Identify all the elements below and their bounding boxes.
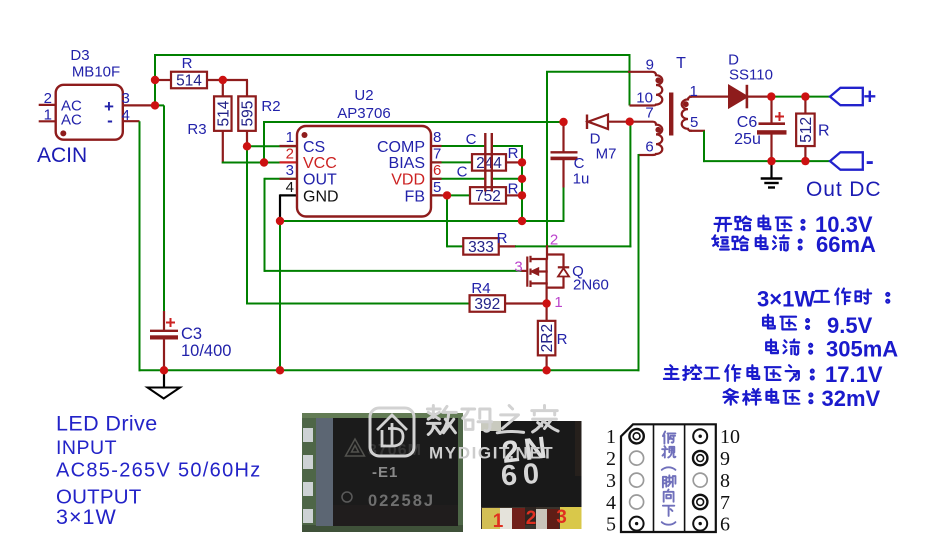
svg-text:333: 333 xyxy=(468,239,494,256)
svg-text:R3: R3 xyxy=(187,121,206,138)
svg-text:66mA: 66mA xyxy=(816,232,876,257)
svg-text:60: 60 xyxy=(500,457,546,492)
svg-text:10/400: 10/400 xyxy=(181,342,231,360)
svg-text:3×1W: 3×1W xyxy=(56,505,117,529)
svg-text:1: 1 xyxy=(44,107,52,124)
svg-text:1: 1 xyxy=(493,511,504,532)
svg-text:1: 1 xyxy=(286,129,294,146)
svg-text:MB10F: MB10F xyxy=(72,64,120,81)
svg-text:CS: CS xyxy=(303,139,325,156)
svg-text:17.1V: 17.1V xyxy=(825,362,883,387)
svg-text:VDD: VDD xyxy=(391,172,425,189)
svg-text:2N60: 2N60 xyxy=(573,277,609,294)
svg-text:MYDIGIT.NET: MYDIGIT.NET xyxy=(429,444,554,463)
svg-text:514: 514 xyxy=(176,73,202,90)
svg-text:512: 512 xyxy=(798,117,815,143)
svg-text:5: 5 xyxy=(433,179,441,196)
svg-text:SS110: SS110 xyxy=(729,67,773,84)
svg-text:3×1W: 3×1W xyxy=(757,287,815,312)
svg-text:2: 2 xyxy=(526,508,537,529)
svg-text:AC: AC xyxy=(61,112,82,129)
svg-text:1: 1 xyxy=(554,294,562,311)
svg-text:2: 2 xyxy=(550,232,558,249)
svg-text:5: 5 xyxy=(690,114,698,131)
svg-text:COMP: COMP xyxy=(377,139,425,156)
svg-text:595: 595 xyxy=(240,101,257,127)
svg-text:R: R xyxy=(557,331,568,348)
svg-text:-E1: -E1 xyxy=(372,464,398,481)
svg-text:6: 6 xyxy=(433,162,441,179)
svg-text:M7: M7 xyxy=(596,146,617,163)
svg-text:T: T xyxy=(676,55,686,72)
svg-text:BIAS: BIAS xyxy=(389,155,425,172)
svg-text:1u: 1u xyxy=(573,171,590,188)
svg-text:8: 8 xyxy=(433,129,441,146)
svg-text:752: 752 xyxy=(475,188,501,205)
svg-text:LED Drive: LED Drive xyxy=(56,412,158,436)
svg-text:514: 514 xyxy=(215,100,232,126)
svg-text:ACIN: ACIN xyxy=(37,144,87,167)
svg-text:+: + xyxy=(863,84,876,109)
svg-text:244: 244 xyxy=(476,155,502,172)
svg-text:7: 7 xyxy=(433,146,441,163)
svg-text:3: 3 xyxy=(556,507,567,528)
svg-text:R: R xyxy=(508,181,519,198)
svg-text:4: 4 xyxy=(286,179,294,196)
svg-text:AC85-265V 50/60Hz: AC85-265V 50/60Hz xyxy=(56,460,262,482)
svg-text:R2: R2 xyxy=(261,98,280,115)
svg-text:8: 8 xyxy=(720,470,730,492)
svg-text:C6: C6 xyxy=(737,114,758,131)
svg-text:4: 4 xyxy=(122,107,130,124)
svg-text:R: R xyxy=(508,145,519,162)
svg-text:6: 6 xyxy=(645,139,653,156)
svg-text:C: C xyxy=(466,131,477,148)
svg-text:FB: FB xyxy=(405,188,425,205)
svg-text:9: 9 xyxy=(720,448,730,470)
svg-text:2R2: 2R2 xyxy=(539,324,556,352)
svg-text:C: C xyxy=(457,164,468,181)
svg-text:C: C xyxy=(574,155,585,172)
svg-text:7: 7 xyxy=(645,104,653,121)
svg-text:3: 3 xyxy=(606,470,616,492)
svg-text:R4: R4 xyxy=(471,280,490,297)
svg-text:1: 1 xyxy=(606,426,616,448)
svg-text:3: 3 xyxy=(286,162,294,179)
svg-text:2: 2 xyxy=(44,90,52,107)
svg-text:9.5V: 9.5V xyxy=(827,313,873,338)
svg-text:GND: GND xyxy=(303,188,339,205)
svg-text:-: - xyxy=(107,111,113,130)
svg-text:392: 392 xyxy=(474,296,500,313)
svg-text:C3: C3 xyxy=(181,325,202,343)
svg-text:R: R xyxy=(818,123,830,140)
svg-text:9: 9 xyxy=(646,57,654,74)
svg-text:INPUT: INPUT xyxy=(56,437,117,459)
svg-text:2: 2 xyxy=(286,146,294,163)
svg-text:R: R xyxy=(497,230,508,247)
svg-text:32mV: 32mV xyxy=(822,386,881,411)
svg-text:R: R xyxy=(182,55,193,72)
svg-text:5: 5 xyxy=(606,514,616,536)
svg-text:3: 3 xyxy=(122,90,130,107)
svg-text:1: 1 xyxy=(690,83,698,100)
svg-text:3: 3 xyxy=(514,259,522,276)
svg-text:AP3706: AP3706 xyxy=(337,105,390,122)
svg-text:VCC: VCC xyxy=(303,155,337,172)
svg-text:02258J: 02258J xyxy=(368,492,435,510)
svg-text:6: 6 xyxy=(720,514,730,536)
svg-text:Out DC: Out DC xyxy=(806,178,881,201)
svg-text:10: 10 xyxy=(720,426,740,448)
svg-text:-: - xyxy=(866,148,874,175)
svg-text:305mA: 305mA xyxy=(826,336,898,361)
svg-text:7: 7 xyxy=(720,492,730,514)
svg-text:D3: D3 xyxy=(70,47,89,64)
svg-text:OUT: OUT xyxy=(303,172,337,189)
svg-text:2: 2 xyxy=(606,448,616,470)
svg-text:U2: U2 xyxy=(354,87,373,104)
svg-text:25u: 25u xyxy=(734,131,761,148)
svg-text:4: 4 xyxy=(606,492,616,514)
